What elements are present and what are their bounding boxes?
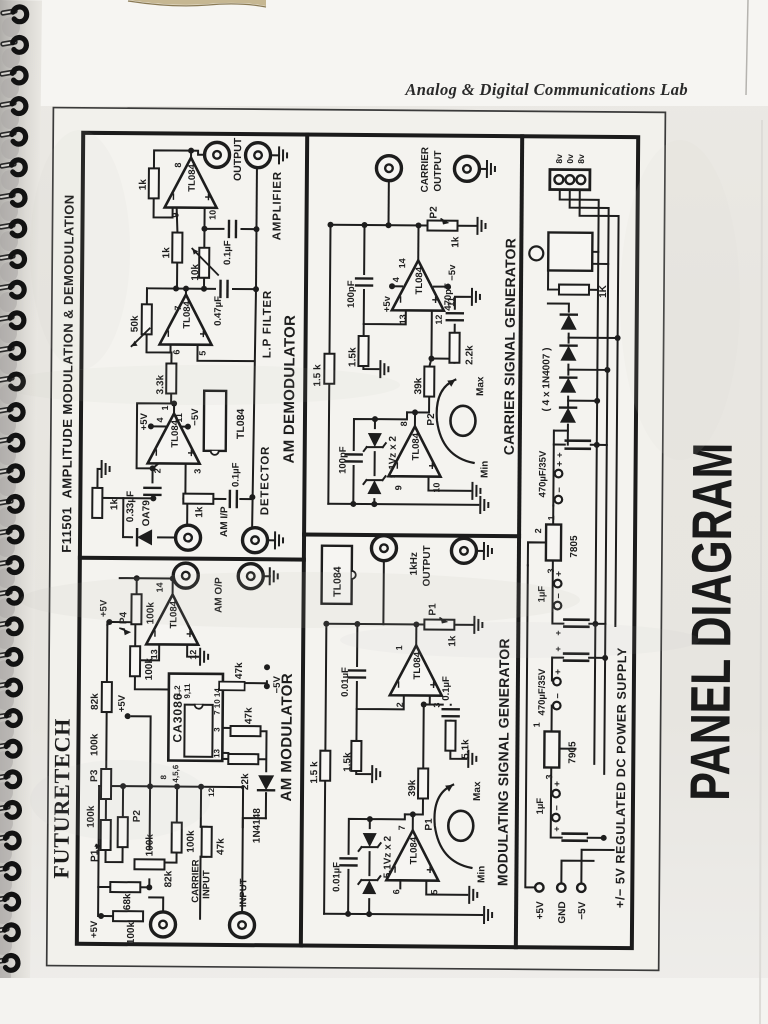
- svg-text:68k: 68k: [122, 893, 133, 910]
- op-amp U4b TL084 carrier schmitt: [389, 426, 441, 476]
- terminal pair raw +: [555, 470, 563, 478]
- ground below P1: [474, 617, 482, 633]
- node at 0.1uF top junction: [201, 226, 207, 232]
- wire op-amp2 pin10 ground: [428, 477, 470, 491]
- svg-text:TL084: TL084: [408, 836, 419, 864]
- wire ground bus detector to filter: [252, 289, 256, 527]
- wire amp feedback 1k: [154, 150, 192, 217]
- node at detector bus junction: [249, 494, 255, 500]
- IC TL084 package outline: [204, 391, 226, 451]
- svg-text:+: +: [553, 630, 563, 635]
- svg-text:Max: Max: [472, 781, 483, 801]
- wire op-amp1 out to bus: [415, 624, 417, 645]
- wire detector branch down to 0.1uF: [183, 498, 252, 501]
- capacitor electrolytic output: [563, 839, 587, 842]
- wire lower-left rail: [200, 787, 201, 919]
- jack AM O/P ground: [238, 564, 263, 589]
- svg-text:82k: 82k: [163, 870, 174, 887]
- resistor 2.2k: [449, 333, 459, 363]
- -5V marker: [264, 683, 270, 689]
- resistor 47k (emitter): [230, 726, 260, 736]
- wire 1.5k to ground branch: [356, 709, 371, 774]
- node carrier cap junction: [361, 222, 367, 228]
- resistor 22k: [228, 754, 258, 764]
- ground at 1.5k carrier: [380, 361, 388, 377]
- node 100k rail junction: [174, 784, 180, 790]
- wire +5v pin: [392, 285, 402, 287]
- resistor 1k (amp input): [172, 233, 182, 263]
- node carrier bus cap junction: [350, 501, 356, 507]
- svg-text:470µF/35V: 470µF/35V: [537, 668, 548, 715]
- wire 82k to +5V node1: [107, 622, 135, 625]
- svg-text:0.1µF: 0.1µF: [222, 240, 233, 265]
- wire diode branch: [97, 498, 175, 538]
- svg-text:100k: 100k: [89, 733, 100, 756]
- wire +5V top left rail: [98, 786, 114, 916]
- svg-text:5: 5: [429, 890, 439, 895]
- divider modulator/demodulator row: [301, 135, 307, 946]
- wire zener branch carrier: [374, 412, 407, 504]
- ground carrier bus: [480, 497, 488, 513]
- svg-text:6: 6: [171, 349, 181, 354]
- svg-text:1.5 k: 1.5 k: [312, 364, 323, 387]
- svg-text:+5V: +5V: [535, 901, 546, 919]
- ground left bus: [484, 907, 492, 923]
- svg-text:P1: P1: [424, 818, 435, 831]
- svg-text:F11501 AMPLITUDE MODULATION &: F11501 AMPLITUDE MODULATION & DEMODULATI…: [59, 194, 77, 552]
- node at LP junction mid: [183, 286, 189, 292]
- svg-text:50k: 50k: [130, 315, 141, 332]
- svg-text:0.47µF: 0.47µF: [213, 296, 224, 326]
- capacitor 0.1uF lag: [443, 709, 459, 716]
- wire output rail lx444: [120, 578, 186, 593]
- svg-text:1,2: 1,2: [173, 685, 182, 697]
- wire GND tap: [561, 861, 593, 884]
- jack generator ground: [451, 538, 476, 563]
- resistor 47k (center): [202, 827, 212, 857]
- wire P3 82k chain: [106, 625, 107, 799]
- wire series 2.2k 470pF: [431, 297, 470, 363]
- svg-text:+: +: [553, 669, 564, 675]
- node bus zener junction: [366, 911, 372, 917]
- svg-text:CARRIER: CARRIER: [420, 146, 431, 192]
- terminal block 8v-0v-8v: [550, 169, 590, 189]
- wire op-amp2 pin5 to ground: [426, 881, 467, 895]
- svg-text:INPUT: INPUT: [238, 878, 249, 907]
- svg-text:10k: 10k: [190, 264, 201, 281]
- node output cap junction: [601, 835, 607, 841]
- capacitor 0.1uF (detector): [230, 491, 237, 507]
- jack CARRIER INPUT: [150, 912, 175, 937]
- knob circle: [448, 811, 473, 841]
- wire 39k path: [405, 695, 430, 830]
- potentiometer 10k: [199, 248, 209, 278]
- svg-text:7: 7: [397, 825, 407, 830]
- wire feedback 100pF loop: [364, 225, 407, 324]
- capacitor 0.1uF (amp): [229, 221, 236, 237]
- svg-text:TL084: TL084: [412, 651, 423, 679]
- divider between modulating and carrier generators: [304, 535, 519, 537]
- ground at 5.1k: [468, 751, 476, 767]
- wire left bus: [324, 914, 482, 915]
- svg-text:+5V: +5V: [89, 920, 100, 938]
- resistor 39k carrier: [424, 367, 434, 397]
- svg-text:Min: Min: [480, 461, 491, 478]
- ground below P2: [477, 218, 485, 234]
- capacitor 470uF/35V raw: [566, 447, 590, 450]
- potentiometer P4 100k: [131, 594, 141, 624]
- svg-text:6: 6: [391, 889, 401, 894]
- svg-text:CA3086: CA3086: [170, 692, 184, 742]
- node -5V cap junction: [602, 655, 608, 661]
- svg-text:100k: 100k: [145, 602, 156, 625]
- svg-text:14: 14: [397, 258, 407, 268]
- svg-text:P2: P2: [426, 413, 437, 426]
- svg-text:1N4148: 1N4148: [252, 808, 263, 844]
- resistor 82k (upper): [102, 682, 112, 712]
- svg-text:FUTURETECH: FUTURETECH: [48, 718, 74, 879]
- terminal pair raw -: [555, 496, 563, 504]
- svg-text:OUTPUT: OUTPUT: [422, 545, 433, 586]
- node +5V cap junction: [592, 621, 598, 627]
- svg-text:1K: 1K: [598, 284, 609, 298]
- svg-text:8v: 8v: [576, 154, 586, 164]
- resistor 1.5k carrier: [358, 336, 368, 366]
- divider generators/power row: [516, 136, 522, 947]
- wire AM I/P to detector input: [185, 464, 187, 527]
- svg-text:3: 3: [193, 469, 203, 474]
- svg-text:MODULATING SIGNAL GENERATOR: MODULATING SIGNAL GENERATOR: [494, 638, 512, 886]
- node carrier jack junction: [385, 222, 391, 228]
- wire jack feed: [382, 561, 384, 624]
- svg-text:1kHz: 1kHz: [409, 552, 420, 575]
- svg-text:3: 3: [544, 774, 554, 779]
- svg-text:+5V: +5V: [139, 412, 150, 430]
- wire 39k path: [407, 310, 432, 426]
- wire 22k 47k tops: [222, 731, 236, 759]
- +5v marker carrier: [389, 283, 395, 289]
- node at detector pin2: [150, 465, 156, 471]
- svg-text:Min: Min: [476, 866, 487, 883]
- wire output bus lx400: [326, 624, 473, 625]
- svg-text:3.3k: 3.3k: [155, 374, 166, 394]
- potentiometer 50k feedback: [142, 304, 152, 334]
- op-amp U3b TL084 schmitt: [386, 830, 438, 880]
- resistor 3.3k: [166, 363, 176, 393]
- node carrier RC junction: [428, 356, 434, 362]
- svg-text:P1: P1: [89, 849, 100, 862]
- svg-text:−: −: [554, 593, 565, 599]
- IC TL084 package: [322, 546, 352, 604]
- +5V supply detector pin 4: [148, 423, 154, 429]
- svg-text:5.1k: 5.1k: [460, 739, 471, 759]
- svg-text:DETECTOR: DETECTOR: [259, 446, 272, 516]
- wire electrolytic links: [552, 611, 606, 681]
- svg-text:3: 3: [432, 703, 442, 708]
- node carrier schmitt output: [412, 409, 418, 415]
- svg-text:82k: 82k: [90, 693, 101, 710]
- svg-text:−5v: −5v: [447, 264, 458, 281]
- svg-text:1.5k: 1.5k: [342, 752, 353, 772]
- jack INPUT: [229, 912, 254, 937]
- svg-text:100k: 100k: [145, 834, 156, 857]
- svg-text:−: −: [553, 693, 564, 699]
- wire 7905 in/out: [551, 706, 576, 796]
- node at 10k junction: [201, 286, 207, 292]
- zener pair 5.1Vz x 2 carrier: [363, 476, 385, 494]
- svg-text:8v: 8v: [554, 154, 564, 164]
- wire 0.01uF2 branch: [348, 819, 370, 914]
- svg-text:0.1µF: 0.1µF: [230, 462, 241, 487]
- jack AM I/P: [175, 525, 200, 550]
- svg-text:+5v: +5v: [382, 295, 393, 312]
- wire junction rail vertical: [99, 786, 228, 787]
- indicator box: [548, 232, 592, 270]
- wire 1K resistor drop: [548, 270, 598, 289]
- svg-text:5: 5: [197, 351, 207, 356]
- svg-text:AM I/P: AM I/P: [219, 506, 230, 537]
- svg-text:OA79: OA79: [141, 500, 152, 527]
- svg-text:1k: 1k: [109, 498, 120, 510]
- knob circle carrier: [450, 406, 475, 436]
- capacitor electrolytic +5V: [564, 625, 588, 628]
- wire 1uF2 to electrolytic3: [551, 796, 604, 838]
- svg-text:14: 14: [155, 582, 165, 592]
- svg-text:2: 2: [395, 702, 405, 707]
- svg-text:2: 2: [533, 528, 543, 533]
- svg-text:P2: P2: [429, 206, 440, 219]
- svg-text:P3: P3: [89, 769, 100, 782]
- svg-text:1: 1: [394, 645, 404, 650]
- svg-text:INPUT: INPUT: [201, 870, 212, 899]
- terminal +5V: [535, 883, 543, 891]
- op-amp U3a TL084 integrator: [390, 645, 442, 695]
- wire top rail with 1.5 k: [324, 624, 326, 914]
- wire square box drops: [592, 252, 608, 264]
- ground at output jack: [279, 147, 287, 163]
- svg-text:100pF: 100pF: [338, 446, 349, 474]
- svg-text:12: 12: [434, 315, 444, 325]
- wire LP junction column: [147, 288, 215, 295]
- resistor 1.5k: [351, 741, 361, 771]
- wire feedback 0.01uF loop: [357, 624, 405, 709]
- wire detector -5V pin: [182, 426, 185, 428]
- svg-text:4: 4: [391, 277, 401, 282]
- svg-text:100pF: 100pF: [346, 280, 357, 308]
- regulator 7905: [544, 731, 559, 767]
- node 82k to +5V: [132, 619, 138, 625]
- jack CARRIER OUTPUT: [376, 156, 401, 181]
- svg-text:+: +: [555, 452, 565, 457]
- svg-text:TL084: TL084: [187, 163, 198, 191]
- diode OA79: [137, 529, 152, 545]
- svg-text:11: 11: [174, 413, 184, 423]
- svg-text:1µF: 1µF: [537, 586, 548, 603]
- svg-text:+: +: [552, 781, 563, 787]
- node at amp output: [188, 148, 194, 154]
- ground at AM I/P jack: [275, 532, 283, 548]
- svg-text:0.01µF: 0.01µF: [340, 667, 351, 697]
- svg-text:8: 8: [159, 774, 168, 779]
- resistor 47k (IC bottom small): [219, 682, 245, 691]
- wire zener branch: [369, 814, 405, 914]
- node P4 feedback junction: [134, 575, 140, 581]
- svg-text:10: 10: [208, 210, 218, 220]
- wire top chain P4-100k: [135, 578, 170, 689]
- node carrier integrator output: [415, 222, 421, 228]
- resistor 1k feedback amp: [149, 168, 159, 198]
- ground at op-amp pin 12: [200, 649, 208, 665]
- svg-text:TL084: TL084: [414, 266, 425, 294]
- node zener right junction: [367, 816, 373, 822]
- wire LP pin5 to ground bus: [197, 345, 254, 361]
- node op-amp output junction: [170, 576, 176, 582]
- svg-text:2: 2: [153, 468, 163, 473]
- svg-text:3: 3: [213, 727, 222, 732]
- wire LP out to 0.47uF branch: [233, 288, 256, 290]
- svg-text:L.P FILTER: L.P FILTER: [261, 290, 274, 358]
- node at detector input: [184, 496, 190, 502]
- ground at 1.5k: [372, 766, 380, 782]
- svg-text:9: 9: [171, 212, 181, 217]
- wire IC bottom stubs: [222, 686, 231, 753]
- terminal pair -5V raw: [553, 678, 561, 686]
- svg-text:−: −: [552, 805, 563, 811]
- wire +5V node2 drop: [131, 716, 151, 786]
- svg-text:AM DEMODULATOR: AM DEMODULATOR: [281, 315, 299, 464]
- resistor 100k (left bias): [113, 911, 143, 921]
- svg-text:39k: 39k: [413, 377, 424, 394]
- capacitor 0.33uF: [144, 488, 160, 495]
- wire 47k row: [201, 827, 207, 857]
- svg-text:13: 13: [212, 748, 221, 758]
- terminal -5V: [577, 884, 585, 892]
- svg-text:8: 8: [399, 421, 409, 426]
- terminal GND: [557, 883, 565, 891]
- svg-text:( 4 x 1N4007 ): ( 4 x 1N4007 ): [541, 347, 553, 411]
- svg-text:−: −: [554, 487, 565, 493]
- svg-text:TL084: TL084: [235, 409, 247, 440]
- capacitor 470pF: [447, 313, 463, 320]
- wire mid-left rail: [148, 786, 151, 886]
- resistor 68k: [110, 882, 140, 892]
- svg-text:AMPLIFIER: AMPLIFIER: [271, 171, 284, 240]
- op-amp U2 TL084 modulator: [146, 594, 198, 644]
- svg-text:−5V: −5V: [190, 408, 201, 426]
- svg-text:22k: 22k: [240, 773, 251, 790]
- wire op-amp2 inputs: [399, 880, 401, 888]
- svg-text:1k: 1k: [447, 635, 458, 647]
- wire -5v pin: [434, 286, 446, 288]
- resistor 5.1k: [445, 721, 455, 751]
- resistor 100k (center): [172, 823, 182, 853]
- wire bottom rail: [258, 731, 267, 818]
- divider between AM modulator and demodulator: [80, 558, 304, 560]
- wire 7805 in/out: [527, 505, 553, 610]
- svg-text:100k: 100k: [186, 830, 197, 853]
- svg-text:TL084: TL084: [411, 432, 422, 460]
- svg-text:OUTPUT: OUTPUT: [232, 137, 244, 181]
- wire amp input 0.1uF branch: [241, 228, 256, 230]
- wire P1 P2 chain: [105, 786, 123, 862]
- node 68k junction: [146, 884, 152, 890]
- node bus cap junction: [345, 911, 351, 917]
- ground at 1k: [102, 461, 110, 477]
- svg-text:AM O/P: AM O/P: [213, 577, 224, 613]
- svg-text:100k: 100k: [86, 805, 97, 828]
- jack carrier ground: [454, 156, 479, 181]
- wire bridge stubs to rails: [568, 338, 617, 401]
- svg-text:4: 4: [155, 417, 165, 422]
- wire left bus carrier: [328, 504, 478, 505]
- resistor 1.5 k rail carrier: [324, 354, 334, 384]
- resistor 1.5 k rail: [320, 751, 330, 781]
- node raw cap junction: [594, 442, 600, 448]
- op-amp U4a TL084 carrier integrator: [392, 260, 444, 310]
- resistor 39k: [418, 768, 428, 798]
- wire amp out to OUTPUT jack: [191, 151, 205, 155]
- ground at AM O/P jack: [270, 568, 278, 584]
- wire output bus lx799: [331, 225, 477, 226]
- ground at 2.2k: [472, 289, 480, 305]
- op-amp U1a TL084 detector: [148, 413, 200, 463]
- resistor 82k (lower): [134, 859, 164, 869]
- svg-text:GND: GND: [557, 901, 568, 923]
- IC CA3086: [168, 674, 223, 761]
- ground at carrier jack: [487, 161, 495, 177]
- svg-text:47k: 47k: [234, 662, 245, 679]
- svg-text:+/− 5V REGULATED DC POWER SUPP: +/− 5V REGULATED DC POWER SUPPLY: [613, 647, 629, 908]
- wire carrier input jack: [149, 897, 163, 911]
- knob arc Min-Max: [434, 785, 472, 868]
- svg-text:TL084: TL084: [170, 419, 181, 447]
- node feedback cap junction: [354, 621, 360, 627]
- zener pair 5.1Vz x 2: [358, 876, 380, 894]
- svg-text:1k: 1k: [194, 506, 205, 518]
- svg-text:1k: 1k: [450, 236, 461, 248]
- svg-text:P4: P4: [118, 611, 129, 624]
- wire transformer harness rails: [555, 190, 599, 764]
- node P3 rail junction: [103, 783, 109, 789]
- svg-text:0v: 0v: [565, 154, 575, 164]
- svg-text:1: 1: [532, 722, 542, 727]
- potentiometer P2 1k level: [427, 221, 457, 231]
- diode 1N4148: [258, 775, 274, 790]
- node bridge tap 2: [604, 367, 610, 373]
- resistor 1k (detector series): [183, 494, 213, 504]
- potentiometer P1 100k: [101, 820, 111, 850]
- svg-text:100k: 100k: [144, 658, 155, 681]
- svg-text:+5V: +5V: [117, 694, 128, 712]
- -5v marker carrier: [445, 284, 451, 290]
- svg-text:13: 13: [398, 314, 408, 324]
- node mid rail junction: [147, 783, 153, 789]
- wire series 5.1k 0.1uF to ground: [423, 705, 466, 759]
- svg-text:−5V: −5V: [577, 901, 588, 919]
- ground op-amp2 carrier: [472, 483, 480, 499]
- node bridge tap 3: [615, 335, 621, 341]
- svg-text:CARRIER: CARRIER: [190, 859, 201, 903]
- svg-text:+: +: [554, 571, 565, 577]
- ground op-amp2: [469, 887, 477, 903]
- svg-text:9,11: 9,11: [183, 683, 192, 699]
- svg-text:100k: 100k: [126, 921, 137, 944]
- svg-text:7905: 7905: [567, 741, 578, 764]
- wire 0.33uF branch: [123, 463, 158, 498]
- svg-text:4,5,6: 4,5,6: [171, 764, 180, 782]
- jack OUTPUT: [204, 142, 229, 167]
- knob arc Min-Max carrier: [436, 380, 474, 463]
